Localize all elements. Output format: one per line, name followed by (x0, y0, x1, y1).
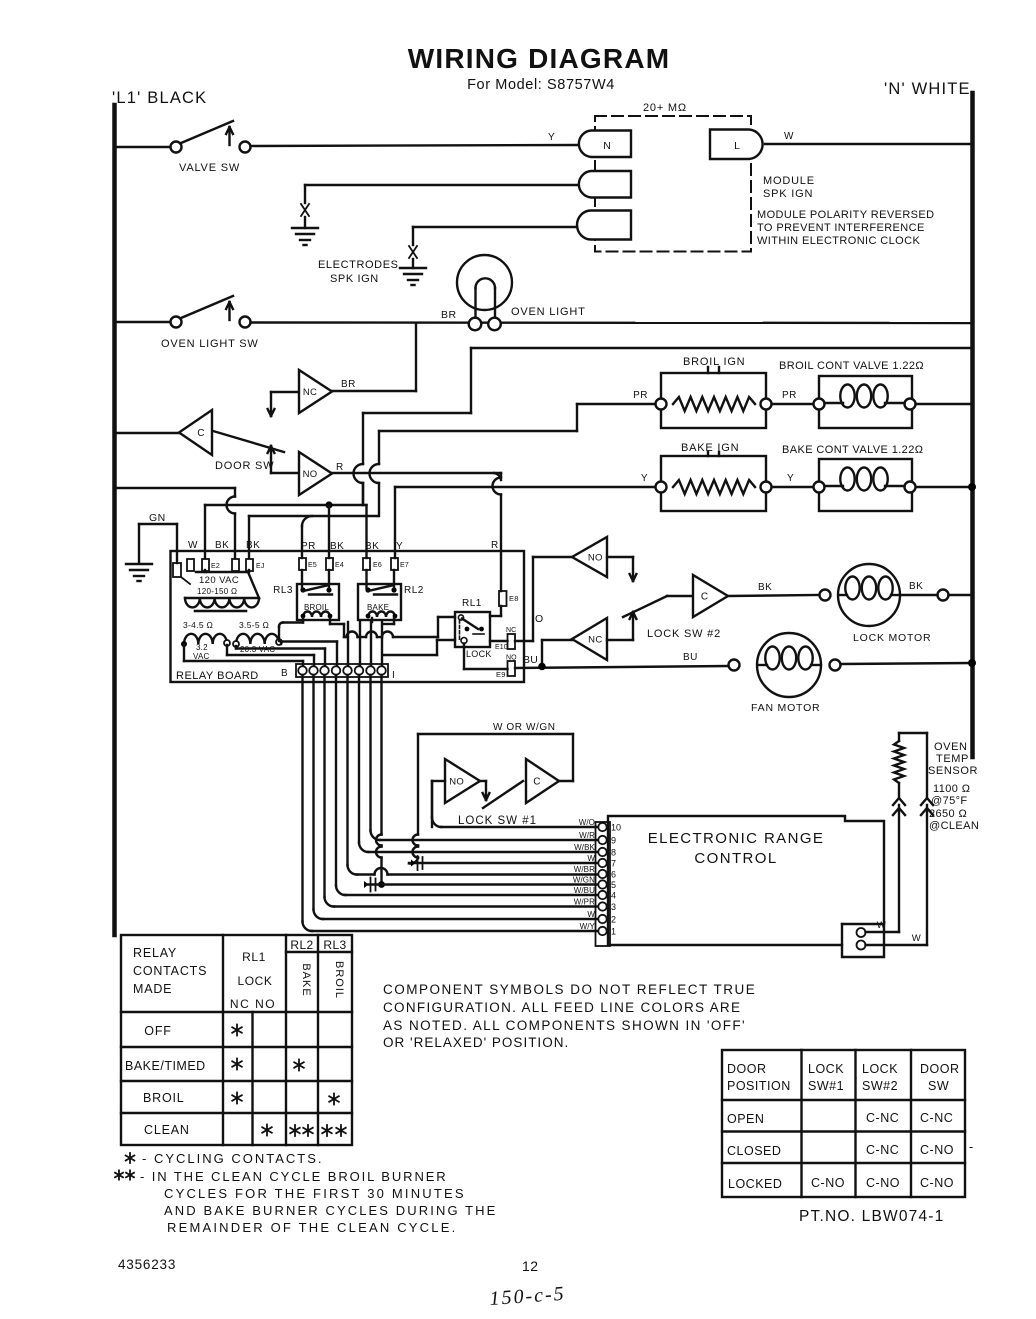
svg-text:W: W (587, 854, 595, 863)
wire W line to terminals E2 E4 E6 (205, 504, 367, 506)
svg-text:PR: PR (782, 390, 797, 401)
wire L1 to valve switch (114, 146, 170, 148)
svg-text:C: C (197, 428, 205, 439)
wire L1 to oven light switch (114, 321, 170, 323)
svg-text:GN: GN (149, 512, 166, 524)
svg-text:W: W (877, 920, 886, 931)
wire R drop to E8 (500, 473, 502, 478)
svg-text:C-NC: C-NC (866, 1143, 899, 1157)
svg-text:Y: Y (396, 541, 403, 552)
svg-text:C: C (701, 592, 709, 603)
svg-text:OFF: OFF (144, 1024, 171, 1038)
svg-text:OPEN: OPEN (727, 1112, 764, 1126)
ERC pin 8 W/BK (598, 848, 606, 856)
ERC terminal block circles (857, 928, 866, 937)
svg-text:LOCK SW #2: LOCK SW #2 (647, 628, 721, 640)
svg-text:E7: E7 (400, 562, 409, 569)
lamp OVEN LIGHT (457, 255, 512, 310)
svg-text:E10: E10 (495, 644, 508, 651)
svg-text:BROIL: BROIL (143, 1091, 185, 1105)
svg-text:BK: BK (246, 540, 260, 551)
svg-text:RELAY BOARD: RELAY BOARD (176, 670, 259, 682)
svg-text:C-NC: C-NC (866, 1111, 899, 1125)
svg-text:N: N (603, 140, 611, 152)
svg-text:C-NC: C-NC (920, 1111, 953, 1125)
svg-text:W/BR: W/BR (574, 865, 595, 874)
wire electrode 1 (305, 184, 577, 186)
terminal EJ (246, 559, 253, 571)
svg-text:10: 10 (611, 823, 621, 833)
svg-text:CYCLES FOR THE FIRST 30 MINUTE: CYCLES FOR THE FIRST 30 MINUTES (164, 1186, 466, 1201)
spark gap 2 (409, 246, 417, 258)
motor LOCK MOTOR (838, 564, 900, 626)
wire BK to lock motor (728, 595, 819, 596)
svg-text:VALVE SW: VALVE SW (179, 162, 240, 174)
door switch NC arrow (270, 392, 272, 416)
svg-text:NO: NO (506, 655, 517, 662)
switch VALVE SW (171, 142, 182, 153)
ERC pin strip (596, 822, 611, 946)
svg-text:BK: BK (365, 541, 379, 552)
ERC enclosure (608, 816, 884, 957)
svg-text:3-4.5 Ω: 3-4.5 Ω (183, 620, 213, 630)
svg-text:RELAY: RELAY (133, 946, 177, 960)
svg-text:OVEN LIGHT: OVEN LIGHT (511, 306, 586, 318)
switch OVEN LIGHT SW (171, 317, 182, 328)
lock switch 1 NO arrow (480, 780, 486, 782)
svg-text:6: 6 (611, 870, 616, 880)
terminal E10 NC (508, 634, 516, 649)
ground electrode 1 (292, 227, 318, 229)
svg-text:CLOSED: CLOSED (727, 1144, 781, 1158)
svg-text:7: 7 (611, 859, 616, 869)
wire L1 tap to BK terminal (114, 487, 235, 489)
svg-text:NO: NO (449, 777, 464, 788)
sensor loop top (899, 732, 927, 734)
wire oven light row to N bus (251, 321, 972, 324)
wire RL3 coil to RL1 with hops (344, 636, 346, 638)
svg-text:C: C (533, 777, 541, 788)
solenoid BROIL CONT VALVE (819, 376, 912, 428)
svg-text:MODULE: MODULE (763, 175, 815, 187)
wire O from E10 to lock NO (515, 640, 533, 642)
svg-text:120 VAC: 120 VAC (199, 575, 239, 586)
wire pin7 W from lock switch loop (417, 734, 419, 835)
svg-text:LOCKED: LOCKED (728, 1177, 782, 1191)
svg-text:DOOR: DOOR (727, 1062, 767, 1076)
ground electrode 2 (400, 267, 426, 269)
junction bake to bus (968, 483, 976, 491)
svg-text:@CLEAN: @CLEAN (929, 820, 979, 832)
svg-text:BK: BK (215, 540, 229, 551)
wire RL1 coil to connector (437, 639, 455, 641)
net L1 left bus (112, 105, 117, 935)
relay RL3 (297, 584, 339, 620)
wire PR feed down (576, 404, 578, 431)
wire NO input to pin 10 line (432, 780, 445, 782)
svg-text:RL3: RL3 (273, 585, 293, 596)
svg-text:NC NO: NC NO (230, 997, 276, 1011)
relay RL1 (455, 612, 490, 647)
relay RL2 coil (368, 612, 395, 618)
svg-text:E8: E8 (509, 594, 519, 603)
terminal GN side (173, 563, 181, 577)
terminal 2 of spark module (579, 171, 631, 198)
svg-text:W/O: W/O (579, 818, 595, 827)
relay board internal wiring (183, 644, 185, 661)
wire lock motor to N bus (900, 594, 937, 596)
wire NC to BU junction (542, 639, 572, 641)
oven temp sensor resistor (898, 733, 900, 741)
svg-text:PR: PR (633, 390, 648, 401)
igniter BAKE IGN (661, 456, 766, 511)
svg-text:1100 Ω: 1100 Ω (933, 783, 970, 795)
svg-text:C-NO: C-NO (811, 1176, 845, 1190)
terminal E2 (202, 559, 209, 571)
contact C lock switch 2 (693, 575, 728, 617)
svg-text:120-150 Ω: 120-150 Ω (197, 587, 237, 596)
svg-text:ELECTRONIC RANGE: ELECTRONIC RANGE (648, 830, 825, 847)
terminal BK (232, 559, 239, 571)
relay RL2 (358, 584, 401, 620)
svg-text:B: B (281, 668, 288, 679)
svg-text:CONFIGURATION. ALL FEED LINE C: CONFIGURATION. ALL FEED LINE COLORS ARE (383, 1000, 741, 1015)
svg-text:PT.NO. LBW074-1: PT.NO. LBW074-1 (799, 1208, 945, 1225)
ERC pin 10 W/O (598, 823, 606, 831)
ERC pin 4 W/BU (598, 891, 606, 899)
svg-text:MODULE POLARITY REVERSED: MODULE POLARITY REVERSED (757, 209, 935, 221)
svg-text:5: 5 (611, 880, 616, 890)
wire module L to N bus (765, 143, 971, 145)
svg-text:L: L (734, 140, 740, 152)
svg-text:LOCK: LOCK (808, 1062, 844, 1076)
svg-text:3: 3 (611, 902, 616, 912)
terminal 3 of spark module (577, 211, 631, 240)
spark gap 1 (301, 204, 309, 216)
door switch arm (213, 431, 284, 452)
svg-text:2: 2 (611, 915, 616, 925)
svg-text:BAKE: BAKE (300, 963, 312, 996)
svg-text:BU: BU (683, 652, 698, 663)
wire fan motor to N bus (841, 663, 972, 664)
ERC pin 5 W/GN (598, 880, 606, 888)
svg-text:RL3: RL3 (323, 938, 346, 952)
ground GN (126, 563, 152, 565)
svg-text:-: - (969, 1140, 974, 1154)
terminal E5 (299, 558, 306, 570)
contact NO of door switch (271, 472, 299, 474)
ERC pin 7 W (598, 859, 606, 867)
svg-text:DOOR: DOOR (920, 1062, 960, 1076)
wire pin10 W/O (431, 781, 433, 818)
connector strip B to I (296, 664, 388, 677)
wire pin5 W/GN from connector (380, 675, 382, 835)
wire oven light to BR node (415, 323, 417, 391)
svg-text:CONTACTS: CONTACTS (133, 964, 207, 978)
module dashed enclosure (595, 116, 751, 252)
svg-text:W/Y: W/Y (580, 922, 596, 931)
wire pin4 W/BU (335, 675, 337, 886)
wires to connector pins 5-8 (347, 622, 349, 666)
svg-text:Y: Y (641, 473, 648, 484)
wire electrode 2 (413, 226, 577, 228)
motor FAN MOTOR (729, 660, 740, 671)
buffer NO lock switch 1 (445, 759, 480, 803)
wire R from door NO (332, 472, 501, 474)
ERC pin 9 W/R (598, 836, 606, 844)
svg-text:BAKE CONT VALVE 1.22Ω: BAKE CONT VALVE 1.22Ω (782, 444, 923, 456)
svg-text:LOCK: LOCK (862, 1062, 898, 1076)
svg-text:3.2: 3.2 (196, 643, 208, 652)
door switch NO arrow (270, 446, 272, 473)
lock switch 2 arm (623, 596, 667, 617)
svg-text:4: 4 (611, 891, 616, 901)
svg-text:20+ MΩ: 20+ MΩ (643, 102, 687, 114)
vertical feed with hops crossing R line (362, 413, 364, 464)
svg-text:SPK IGN: SPK IGN (330, 273, 379, 285)
svg-text:POSITION: POSITION (727, 1079, 791, 1093)
terminal E7 (391, 558, 398, 570)
svg-text:BR: BR (341, 379, 356, 390)
lock switch 2 NC arrow (607, 639, 633, 641)
svg-text:TO PREVENT INTERFERENCE: TO PREVENT INTERFERENCE (757, 222, 925, 234)
svg-text:BAKE: BAKE (367, 603, 389, 612)
svg-text:EJ: EJ (256, 563, 265, 570)
wire L1 to door switch common (114, 432, 179, 434)
wire pin3 W/PR (323, 675, 325, 897)
svg-text:REMAINDER OF THE CLEAN CYCLE.: REMAINDER OF THE CLEAN CYCLE. (167, 1220, 457, 1235)
note cycling contacts (126, 1153, 135, 1163)
svg-text:SW: SW (928, 1079, 949, 1093)
svg-text:C-NO: C-NO (920, 1143, 954, 1157)
table asterisks (232, 1025, 242, 1036)
svg-text:12: 12 (522, 1258, 539, 1274)
wire broil igniter to broil valve (772, 403, 813, 405)
relay board enclosure (171, 551, 525, 682)
svg-text:R: R (336, 462, 344, 473)
svg-text:R: R (491, 540, 499, 551)
svg-text:OVEN: OVEN (934, 741, 968, 753)
svg-text:E2: E2 (211, 563, 220, 570)
table DOOR POSITION (722, 1050, 965, 1197)
wire valve switch to module N terminal (251, 145, 579, 146)
svg-text:PR: PR (301, 541, 316, 552)
svg-text:NO: NO (588, 553, 603, 564)
svg-text:SW#1: SW#1 (808, 1079, 844, 1093)
ERC pin 1 W/Y (598, 927, 606, 935)
wire broil valve to N bus (916, 403, 971, 405)
svg-text:W/BU: W/BU (574, 886, 595, 895)
svg-text:RL2: RL2 (404, 585, 424, 596)
ERC pin 2 W (598, 915, 606, 923)
terminal W (187, 559, 194, 571)
svg-text:'L1' BLACK: 'L1' BLACK (112, 89, 207, 107)
svg-text:SW#2: SW#2 (862, 1079, 898, 1093)
svg-text:- CYCLING CONTACTS.: - CYCLING CONTACTS. (142, 1151, 324, 1166)
svg-text:AS NOTED. ALL COMPONENTS SHOWN: AS NOTED. ALL COMPONENTS SHOWN IN 'OFF' (383, 1018, 746, 1033)
wire pin1 W/Y (301, 675, 303, 922)
svg-text:NC: NC (303, 387, 317, 398)
svg-text:W: W (587, 910, 595, 919)
svg-text:Y: Y (787, 473, 794, 484)
svg-text:C-NO: C-NO (866, 1176, 900, 1190)
wire bake igniter to bake valve (772, 486, 813, 488)
svg-text:I: I (392, 670, 395, 681)
svg-text:WITHIN ELECTRONIC CLOCK: WITHIN ELECTRONIC CLOCK (757, 235, 920, 247)
wire BU from E9 to fan motor (515, 666, 728, 668)
igniter BROIL IGN (661, 373, 766, 428)
svg-text:NC: NC (588, 635, 602, 646)
svg-text:BU: BU (523, 654, 538, 666)
wire BR from door NC (332, 390, 416, 392)
svg-text:BR: BR (441, 309, 457, 321)
svg-text:2650 Ω: 2650 Ω (929, 808, 967, 820)
svg-text:Y: Y (548, 132, 555, 143)
svg-text:RL2: RL2 (290, 938, 313, 952)
svg-text:E9: E9 (496, 670, 506, 679)
svg-text:For Model: S8757W4: For Model: S8757W4 (467, 77, 615, 93)
svg-text:BK: BK (330, 541, 344, 552)
buffer NC lock (572, 618, 607, 660)
contact C lock switch 1 (526, 759, 559, 803)
terminal E6 (363, 558, 370, 570)
wire pin8 W/BK (358, 675, 360, 843)
svg-text:W/PR: W/PR (574, 897, 595, 906)
contact NC of door switch (271, 391, 299, 393)
wire bake valve to N bus (916, 486, 971, 488)
svg-text:1: 1 (611, 927, 616, 937)
svg-text:WIRING DIAGRAM: WIRING DIAGRAM (408, 43, 671, 74)
svg-text:LOCK: LOCK (237, 974, 272, 988)
svg-text:TEMP: TEMP (936, 753, 969, 765)
svg-text:C-NO: C-NO (920, 1176, 954, 1190)
wire pin6 W/BR (346, 675, 348, 865)
svg-text:SENSOR: SENSOR (928, 765, 978, 777)
svg-text:W/BK: W/BK (574, 843, 595, 852)
terminal L of spark module (710, 130, 763, 160)
svg-text:LOCK: LOCK (466, 649, 492, 659)
svg-text:E6: E6 (373, 562, 382, 569)
net N right bus (970, 93, 975, 757)
svg-text:O: O (535, 613, 544, 625)
sensor return wire (926, 733, 928, 798)
wire pin2 W (312, 675, 314, 910)
svg-text:VAC: VAC (193, 652, 209, 661)
ERC pin 3 W/PR (598, 902, 606, 910)
svg-text:BAKE IGN: BAKE IGN (681, 442, 739, 454)
svg-text:BROIL: BROIL (333, 961, 345, 999)
buffer NO lock (572, 537, 607, 577)
svg-text:W: W (188, 540, 198, 551)
terminal E4 (326, 558, 333, 570)
svg-text:MADE: MADE (133, 982, 172, 996)
svg-text:NO: NO (303, 469, 318, 480)
svg-text:BK: BK (909, 581, 923, 592)
table RELAY CONTACTS MADE (121, 935, 352, 1145)
svg-text:@75°F: @75°F (931, 795, 968, 807)
svg-text:- IN THE CLEAN CYCLE BROIL BU: - IN THE CLEAN CYCLE BROIL BURNER (140, 1169, 448, 1184)
svg-text:AND BAKE BURNER CYCLES DURING: AND BAKE BURNER CYCLES DURING THE (164, 1203, 497, 1218)
transformer 120 VAC primary (185, 572, 259, 598)
wire N bus feed line (471, 347, 971, 349)
svg-text:W: W (784, 131, 794, 142)
svg-text:4356233: 4356233 (118, 1257, 176, 1272)
svg-text:CLEAN: CLEAN (144, 1123, 190, 1137)
svg-text:RL1: RL1 (242, 950, 266, 964)
svg-text:ELECTRODES: ELECTRODES (318, 259, 399, 271)
wire PR node to feed (577, 403, 655, 405)
svg-text:LOCK MOTOR: LOCK MOTOR (853, 632, 931, 644)
svg-text:3.5-5 Ω: 3.5-5 Ω (239, 620, 269, 630)
svg-text:SPK IGN: SPK IGN (763, 188, 813, 200)
svg-text:CONTROL: CONTROL (694, 850, 777, 867)
relay RL3 coil (303, 612, 330, 618)
svg-text:OVEN LIGHT SW: OVEN LIGHT SW (161, 338, 259, 350)
svg-text:9: 9 (611, 836, 616, 846)
svg-text:NC: NC (506, 627, 516, 634)
svg-text:W/R: W/R (579, 831, 595, 840)
svg-text:LOCK SW #1: LOCK SW #1 (458, 815, 537, 827)
svg-text:W/GN: W/GN (573, 875, 595, 884)
svg-text:W: W (912, 933, 921, 944)
svg-text:E4: E4 (335, 562, 344, 569)
terminal E9 NO (508, 661, 516, 676)
svg-text:OR 'RELAXED' POSITION.: OR 'RELAXED' POSITION. (383, 1035, 569, 1050)
svg-text:DOOR SW: DOOR SW (215, 460, 274, 472)
svg-text:FAN MOTOR: FAN MOTOR (751, 702, 820, 714)
svg-text:BAKE/TIMED: BAKE/TIMED (125, 1059, 206, 1073)
svg-text:'N' WHITE: 'N' WHITE (884, 80, 971, 98)
contact C of door switch (179, 410, 212, 455)
svg-text:BROIL CONT VALVE 1.22Ω: BROIL CONT VALVE 1.22Ω (779, 360, 924, 372)
terminal N of spark module (579, 131, 631, 158)
svg-text:E5: E5 (308, 562, 317, 569)
svg-text:BROIL IGN: BROIL IGN (683, 356, 745, 368)
svg-text:RL1: RL1 (462, 598, 482, 609)
lock switch 2 NO arrow (607, 556, 633, 558)
svg-text:W OR W/GN: W OR W/GN (493, 722, 556, 733)
wire Y from bake node to relay board (395, 486, 655, 488)
svg-text:BK: BK (758, 582, 772, 593)
lock switch 1 arm (483, 781, 523, 808)
terminal E8 (499, 591, 507, 606)
ERC pin 6 W/BR (598, 870, 606, 878)
svg-text:COMPONENT SYMBOLS DO NOT REFLE: COMPONENT SYMBOLS DO NOT REFLECT TRUE (383, 982, 756, 997)
wire pin9 W/R (369, 675, 371, 831)
wire PR line to terminals EJ E5 (249, 515, 378, 517)
svg-text:8: 8 (611, 848, 616, 858)
solenoid BAKE CONT VALVE (819, 459, 912, 511)
